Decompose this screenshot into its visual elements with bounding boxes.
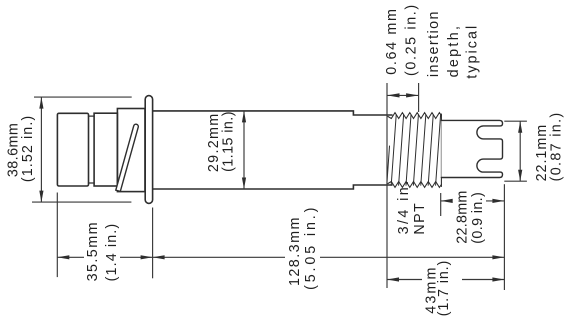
arrow 43 right [492,277,504,281]
svg-text:128.3mm: 128.3mm [287,218,303,286]
right end extension line [503,184,505,290]
diagonal lever bar [116,124,139,192]
dim 38.6 extension line bottom [32,201,131,203]
dim 38.6 dimension line [40,97,42,202]
dim 22.1 extension line bottom [504,180,527,182]
dim 43 dimension line [387,279,504,281]
arrow insertion right [406,93,419,97]
svg-text:(0.9 in.): (0.9 in.) [470,192,486,244]
svg-text:depth,: depth, [446,26,462,77]
svg-text:(1.7 in.): (1.7 in.) [436,261,452,317]
arrow 35.5 left [57,255,69,259]
svg-text:22.8mm: 22.8mm [455,191,471,244]
arrow 29.2 up [242,111,246,123]
dim 22.1 dimension line [519,121,521,181]
svg-text:(1.4 in.): (1.4 in.) [104,224,120,282]
arrow 22.8 right [492,199,504,203]
dim 22.1 extension line top [504,120,527,122]
svg-text:insertion: insertion [426,11,442,77]
dim 29.2 dimension line [243,111,245,189]
housing segment B [94,113,117,186]
dim 22.8 dimension line [441,200,505,202]
arrow 29.2 down [242,178,246,190]
thread flank diagonals [387,115,441,185]
housing segment A [57,113,88,186]
arrow 22.1 up [518,121,522,133]
dim 35.5 dimension line [57,256,152,258]
arrow 22.1 down [518,170,522,182]
arrow 128.3 right [492,255,504,259]
sensor tip with slots [441,120,502,177]
insertion depth dimension line [387,94,419,96]
mounting flange capsule [145,96,152,204]
dim 22.8 extension line left [440,193,442,216]
arrow insertion left [387,93,400,97]
svg-text:(0.25 in.): (0.25 in.) [403,5,419,76]
svg-text:(5.05 in.): (5.05 in.) [303,208,319,290]
thread crest zigzag top [388,113,441,119]
dim 35.5/128.3 extension line middle [152,208,154,279]
dim 35.5 extension line left [56,193,58,278]
insertion depth extension line left long [386,83,388,288]
svg-text:(0.87 in.): (0.87 in.) [549,113,565,182]
main tube body [153,111,392,189]
arrow 38.6 down [39,191,43,203]
arrow 35.5 right [141,255,153,259]
svg-text:0.64 mm: 0.64 mm [384,9,400,75]
groove between segments [89,116,95,183]
svg-text:NPT: NPT [412,203,428,235]
svg-text:(1.52 in.): (1.52 in.) [20,116,36,182]
svg-text:35.5mm: 35.5mm [85,223,101,282]
arrow 128.3 left [153,255,165,259]
svg-text:typical: typical [465,26,481,79]
thread crest zigzag bottom [388,182,441,188]
insertion depth extension line right [418,83,420,112]
housing segment C [117,109,145,192]
thread end face [440,114,442,187]
dim 38.6 extension line top [34,96,132,98]
arrow 38.6 up [39,97,43,109]
svg-text:(1.15 in.): (1.15 in.) [220,111,236,171]
arrow 22.8 left [441,199,453,203]
dim 128.3 dimension line [153,256,505,258]
arrow 43 left [387,277,399,281]
